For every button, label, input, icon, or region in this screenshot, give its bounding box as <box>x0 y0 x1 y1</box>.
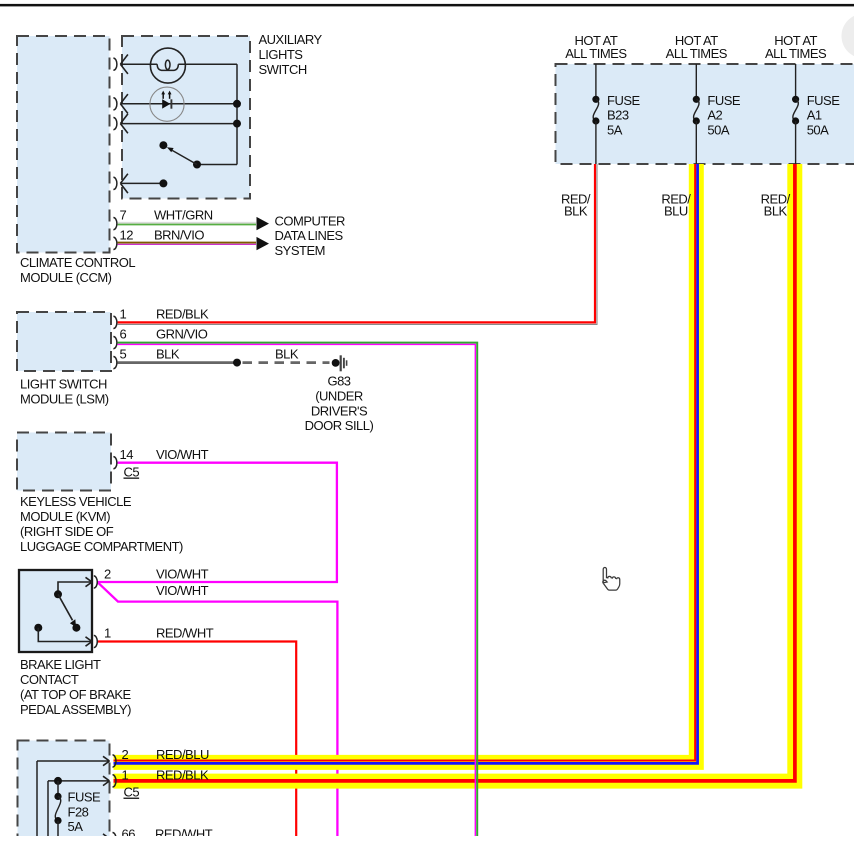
brake pin 1 connector <box>86 637 93 642</box>
fuse F28 element <box>54 793 61 800</box>
svg-text:(AT TOP OF BRAKE: (AT TOP OF BRAKE <box>20 687 132 702</box>
svg-text:BRN/VIO: BRN/VIO <box>154 227 204 242</box>
wire BLK dashed to ground <box>243 361 330 364</box>
brake switch lead pin 1 <box>38 628 92 642</box>
svg-text:7: 7 <box>120 207 127 222</box>
svg-text:50A: 50A <box>807 122 829 137</box>
wire RED/BLK LSM pin 1 (black stripe) <box>118 164 597 324</box>
fuse element squiggle <box>593 99 598 121</box>
fuse top dot <box>792 96 799 103</box>
svg-text:COMPUTER: COMPUTER <box>275 214 346 229</box>
aux right vertical bus <box>236 64 238 164</box>
wire WHT/GRN pin 7 (white stripe) <box>118 222 256 224</box>
svg-text:C5: C5 <box>124 785 140 800</box>
svg-text:5A: 5A <box>607 122 623 137</box>
svg-text:FUSE: FUSE <box>607 93 641 108</box>
wire VIO/WHT splice from brake pin 2 down (second branch) <box>98 582 338 837</box>
svg-text:2: 2 <box>122 747 129 762</box>
svg-text:CLIMATE CONTROL: CLIMATE CONTROL <box>20 255 135 270</box>
svg-text:DRIVER'S: DRIVER'S <box>311 404 368 419</box>
fuse lead to box bottom <box>695 121 697 164</box>
lamp L1 (illumination bulb) <box>150 48 185 83</box>
svg-text:RED/BLK: RED/BLK <box>156 767 209 782</box>
svg-text:SWITCH: SWITCH <box>259 62 307 77</box>
svg-text:12: 12 <box>120 227 134 242</box>
svg-text:(RIGHT SIDE OF: (RIGHT SIDE OF <box>20 524 114 539</box>
svg-text:2: 2 <box>104 567 111 582</box>
fuse bottom dot <box>792 117 799 124</box>
power distribution box (HOT AT ALL TIMES) <box>556 64 854 164</box>
wire VIO/WHT from KVM pin 14 to brake pin 2 <box>98 463 337 582</box>
fuse lead from box top x=795.6 <box>795 64 797 96</box>
svg-text:MODULE (LSM): MODULE (LSM) <box>20 392 109 407</box>
svg-text:BRAKE LIGHT: BRAKE LIGHT <box>20 657 101 672</box>
svg-text:GRN/VIO: GRN/VIO <box>156 327 208 342</box>
F28 pin 2 connector <box>103 756 110 761</box>
svg-text:VIO/WHT: VIO/WHT <box>156 447 209 462</box>
svg-text:C5: C5 <box>124 465 140 480</box>
svg-text:5: 5 <box>120 346 127 361</box>
wire GRN/VIO LSM pin 6 (green stripe, over bands) <box>118 343 478 837</box>
brake switch lead pin 2 <box>58 582 92 591</box>
module box FUSE F28 (bottom, clipped) <box>18 741 110 841</box>
fuse top dot <box>693 96 700 103</box>
svg-text:1: 1 <box>122 767 129 782</box>
aux pin connectors at CCM edge <box>113 58 117 70</box>
junction dot to fuse F28 <box>54 777 62 785</box>
svg-text:6: 6 <box>120 326 127 341</box>
wire WHT/GRN pin 7 (green stripe) <box>118 224 256 226</box>
svg-text:SYSTEM: SYSTEM <box>275 243 325 258</box>
F28 pin 66 connector <box>103 834 110 839</box>
floating button partially offscreen top-right <box>842 14 854 59</box>
fuse lead to box bottom <box>795 121 797 164</box>
LSM pin 6 connector <box>113 337 116 349</box>
pin 12 connector <box>113 237 117 249</box>
svg-text:50A: 50A <box>707 122 729 137</box>
svg-text:BLK: BLK <box>156 346 180 361</box>
svg-text:MODULE (KVM): MODULE (KVM) <box>20 509 110 524</box>
arrow to computer data lines (bottom) <box>257 237 270 250</box>
wire aux pin2 through LED <box>121 103 237 105</box>
svg-text:BLK: BLK <box>564 204 588 219</box>
svg-text:1: 1 <box>120 306 127 321</box>
svg-text:AUXILIARY: AUXILIARY <box>259 32 323 47</box>
svg-text:BLU: BLU <box>664 204 688 219</box>
fuse lead to box bottom <box>595 121 597 164</box>
svg-text:A2: A2 <box>707 108 722 123</box>
svg-text:66: 66 <box>122 826 136 836</box>
svg-text:VIO/WHT: VIO/WHT <box>156 583 209 598</box>
brake switch fixed contact dot <box>72 624 80 632</box>
F28 inner lead pin 2 <box>37 760 110 762</box>
wire RED/BLK LSM pin 1 to fuse B23 (red stripe) <box>118 164 595 322</box>
wire aux pin1 to lamp <box>120 63 157 65</box>
svg-text:RED/WHT: RED/WHT <box>156 626 214 641</box>
wire BLK LSM pin 5 solid <box>118 361 237 364</box>
RED/BLK red stripe <box>114 164 795 781</box>
brake switch arm with arrowhead <box>58 594 73 620</box>
svg-text:14: 14 <box>120 447 134 462</box>
svg-text:5A: 5A <box>68 819 84 834</box>
KVM pin 14 connector <box>113 457 116 469</box>
splice dot BLK <box>233 359 241 367</box>
F28 inner lead pin 1 <box>48 780 110 782</box>
svg-text:WHT/GRN: WHT/GRN <box>154 207 213 222</box>
fuse lead from box top x=696.3 <box>695 64 697 96</box>
svg-text:RED/WHT: RED/WHT <box>155 826 213 836</box>
svg-text:DATA LINES: DATA LINES <box>275 228 344 243</box>
junction dot bus-pin3 <box>233 120 241 128</box>
svg-text:DOOR SILL): DOOR SILL) <box>305 418 374 433</box>
aux switch S1 (rotary contact) <box>197 164 237 166</box>
fuse element squiggle <box>793 99 798 121</box>
wire GRN/VIO (violet stripe) <box>118 344 476 837</box>
svg-text:RED/BLK: RED/BLK <box>156 306 209 321</box>
brake switch movable contact dot <box>54 590 62 598</box>
svg-text:ALL TIMES: ALL TIMES <box>666 46 728 61</box>
svg-text:MODULE (CCM): MODULE (CCM) <box>20 270 112 285</box>
svg-text:BLK: BLK <box>275 346 299 361</box>
highlighted wire RED/BLU from fuse A2 (yellow highlight) <box>114 164 697 762</box>
wire RED/WHT from brake light contact pin 1 to F28 pin 66 <box>98 642 297 839</box>
module box KEYLESS VEHICLE MODULE (KVM) <box>17 433 111 491</box>
RED/BLU blue stripe <box>114 164 698 763</box>
module box AUXILIARY LIGHTS SWITCH <box>122 36 250 199</box>
svg-text:ALL TIMES: ALL TIMES <box>565 46 627 61</box>
svg-text:KEYLESS VEHICLE: KEYLESS VEHICLE <box>20 494 132 509</box>
ground G83 symbol <box>332 359 340 367</box>
svg-text:(UNDER: (UNDER <box>315 389 363 404</box>
svg-text:A1: A1 <box>807 108 822 123</box>
module box CLIMATE CONTROL MODULE (CCM) <box>17 36 110 253</box>
svg-text:1: 1 <box>104 626 111 641</box>
junction dot bus-pin2 <box>233 100 241 108</box>
pin 7 connector <box>113 218 116 230</box>
svg-text:LIGHTS: LIGHTS <box>259 47 304 62</box>
fuse bottom dot <box>592 117 599 124</box>
svg-text:G83: G83 <box>327 374 350 389</box>
wire BRN/VIO pin 12 (violet stripe) <box>118 243 256 245</box>
svg-text:RED/BLU: RED/BLU <box>156 747 209 762</box>
LSM pin 5 connector <box>113 357 116 369</box>
svg-text:BLK: BLK <box>764 204 788 219</box>
brake switch second contact dot <box>34 624 42 632</box>
wire aux pin3 <box>121 123 237 125</box>
svg-text:PEDAL ASSEMBLY): PEDAL ASSEMBLY) <box>20 702 131 717</box>
fuse bottom dot <box>693 117 700 124</box>
svg-text:VIO/WHT: VIO/WHT <box>156 567 209 582</box>
svg-text:FUSE: FUSE <box>68 789 102 804</box>
svg-text:CONTACT: CONTACT <box>20 672 79 687</box>
arrow to computer data lines (top) <box>257 217 270 230</box>
svg-text:FUSE: FUSE <box>707 93 741 108</box>
switch box BRAKE LIGHT CONTACT <box>19 570 92 652</box>
wire lamp to right bus <box>178 63 237 65</box>
wire BRN/VIO pin 12 (brown stripe) <box>118 242 256 244</box>
LED indicator (circle with diode and arrows) <box>150 87 184 121</box>
F28 pin 1 connector <box>103 776 110 781</box>
highlighted wire RED/BLK from fuse A1 (yellow highlight) <box>114 164 795 781</box>
top toolbar divider bar <box>0 4 854 7</box>
fuse element squiggle <box>694 99 699 121</box>
svg-text:LIGHT SWITCH: LIGHT SWITCH <box>20 377 107 392</box>
svg-text:B23: B23 <box>607 108 629 123</box>
svg-text:ALL TIMES: ALL TIMES <box>765 46 827 61</box>
mouse cursor (hand pointer) <box>603 568 620 591</box>
svg-text:F28: F28 <box>68 804 89 819</box>
fuse lead from box top x=595.9 <box>595 64 597 96</box>
LSM pin 1 connector <box>113 316 116 328</box>
brake pin 2 connector <box>86 577 93 582</box>
wire aux pin4 <box>121 182 164 184</box>
svg-text:LUGGAGE COMPARTMENT): LUGGAGE COMPARTMENT) <box>20 539 183 554</box>
svg-text:FUSE: FUSE <box>807 93 841 108</box>
RED/BLU red stripe <box>114 164 696 761</box>
fuse top dot <box>592 96 599 103</box>
module box LIGHT SWITCH MODULE (LSM) <box>17 312 111 371</box>
